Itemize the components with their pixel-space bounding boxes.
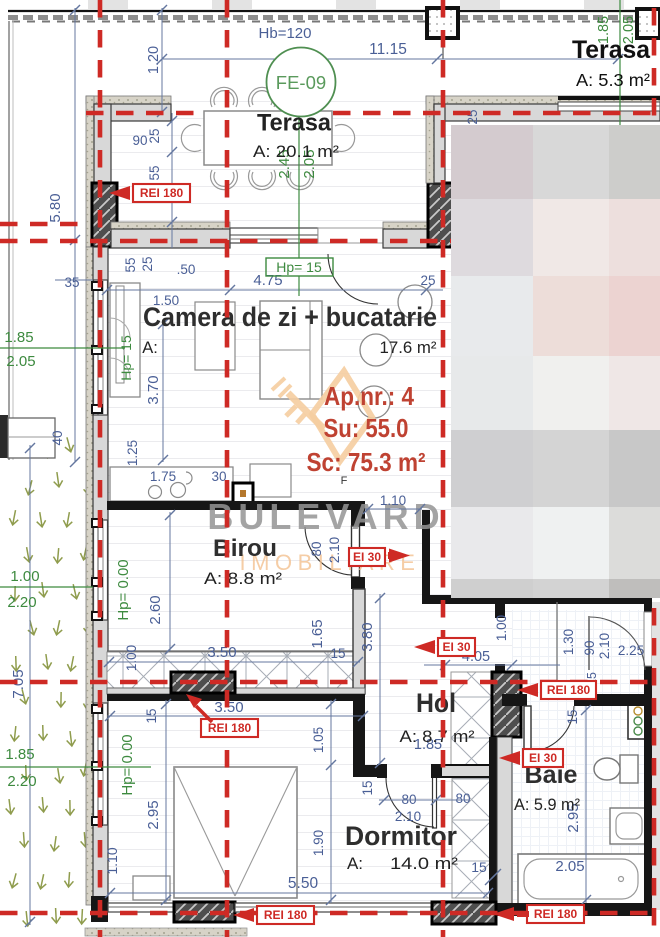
axis horizontal 1 east (333, 111, 660, 116)
svg-text:REI 180: REI 180 (208, 721, 252, 735)
svg-text:30: 30 (211, 469, 226, 484)
dormitor south window west (108, 903, 174, 912)
hatched block balcony B1 (171, 672, 235, 693)
svg-text:2.05: 2.05 (6, 353, 35, 370)
west wall speckle band (86, 247, 93, 905)
svg-text:Dormitor: Dormitor (345, 821, 457, 851)
sofa (260, 301, 322, 399)
svg-text:REI 180: REI 180 (547, 683, 591, 697)
terasa sliding window (230, 228, 318, 243)
door birou leaf (352, 526, 360, 577)
svg-text:Hp= 0.00: Hp= 0.00 (115, 559, 132, 620)
terasa bottom wall west segment (111, 222, 230, 229)
svg-text:EI 30: EI 30 (442, 640, 470, 654)
dim 3.70 (162, 322, 164, 462)
terasa left wall speckle band (86, 96, 171, 104)
svg-text:1.65: 1.65 (309, 619, 326, 648)
door jamb dormitor west (377, 764, 387, 778)
column A1 terasa left (92, 183, 117, 247)
green hp15 box (266, 258, 333, 276)
dim 1.10 passage (365, 508, 422, 510)
balcony railing strip (107, 652, 360, 688)
north-east building wall speckle (426, 96, 660, 104)
dim 1.20 vertical (161, 8, 163, 113)
svg-text:A: 5.3 m²: A: 5.3 m² (576, 70, 650, 90)
kitchen counter with sink (110, 467, 233, 501)
door baie swing (527, 706, 574, 752)
svg-text:15: 15 (330, 646, 345, 661)
green level line 3 (0, 766, 151, 768)
label rei180 terasa (133, 184, 190, 202)
dim line living top (107, 289, 443, 291)
column top axis C (427, 8, 458, 38)
svg-text:REI 180: REI 180 (140, 186, 184, 200)
wall birou-hol (353, 589, 365, 694)
dim 4.05 hol (424, 664, 560, 666)
label ei30 baie (523, 749, 563, 767)
dim 5.80 line (74, 8, 76, 462)
door jamb birou north (351, 510, 365, 526)
svg-text:25: 25 (140, 256, 155, 271)
door terasa east swing (590, 617, 645, 670)
door jamb dormitor east (431, 764, 441, 778)
svg-text:Hp= 0.00: Hp= 0.00 (119, 734, 136, 795)
wall baie north west segment (502, 694, 527, 706)
terasa bottom wall east segment (383, 222, 428, 229)
svg-text:A: 20.1 m²: A: 20.1 m² (253, 142, 339, 161)
label rei180 hol (541, 681, 596, 699)
dim terasa vertical line (171, 113, 173, 248)
svg-text:15: 15 (471, 859, 487, 875)
svg-text:A:: A: (142, 339, 158, 357)
dim 2.95 baie (585, 706, 587, 903)
door dormitor swing (386, 778, 434, 827)
dim line east dormitor (330, 700, 332, 903)
svg-text:Hp= 15: Hp= 15 (118, 335, 134, 381)
svg-text:5.50: 5.50 (288, 875, 319, 892)
svg-text:80: 80 (455, 791, 470, 806)
svg-text:1.30: 1.30 (561, 629, 576, 655)
svg-text:11.15: 11.15 (369, 41, 407, 58)
terasa left wall (94, 104, 171, 121)
svg-text:55: 55 (147, 165, 162, 180)
column top right corner (637, 9, 660, 38)
armchair 2 (360, 334, 392, 366)
dim 5.50 (107, 892, 490, 894)
west utility box (0, 415, 8, 458)
window dormitor mullions (92, 705, 102, 713)
svg-text:80: 80 (309, 541, 324, 556)
axis vertical 4 (652, 8, 657, 937)
svg-text:Hp= 15: Hp= 15 (276, 259, 322, 275)
svg-text:2.20: 2.20 (7, 773, 36, 790)
svg-text:Su: 55.0: Su: 55.0 (324, 413, 409, 443)
axis horizontal 1 west (86, 111, 203, 116)
west boundary line (8, 21, 10, 460)
svg-text:REI 180: REI 180 (534, 907, 578, 921)
axis horizontal 2 (0, 222, 86, 227)
svg-text:Hol: Hol (416, 688, 456, 718)
south-west corner block (91, 896, 108, 922)
mosaic censored block (451, 125, 660, 598)
svg-text:35: 35 (64, 275, 79, 290)
towel radiator (628, 703, 649, 739)
svg-text:BULEVARD: BULEVARD (207, 496, 444, 537)
wall baie east (644, 598, 652, 910)
svg-text:A: 5.9 m²: A: 5.9 m² (514, 796, 580, 814)
washbasin (610, 808, 647, 844)
wall hol-dormitor (365, 765, 379, 777)
wall hol east above column (495, 602, 505, 618)
wall living-birou (107, 501, 365, 510)
north-east building wall (434, 104, 660, 121)
dormitor south window east (235, 903, 432, 912)
flue box (233, 483, 253, 504)
balcony slab lower band (107, 688, 360, 694)
label rei180 south west (257, 906, 314, 924)
armchair 3 (358, 386, 390, 418)
wall passage east (422, 510, 430, 602)
svg-text:40: 40 (50, 430, 65, 445)
balcony slab edge (107, 650, 360, 652)
green level line 2 (0, 586, 93, 588)
svg-text:90: 90 (132, 133, 147, 148)
svg-text:2.95: 2.95 (145, 800, 162, 829)
svg-text:15: 15 (360, 780, 375, 795)
svg-text:55: 55 (123, 257, 138, 272)
svg-text:1.85: 1.85 (4, 329, 33, 346)
svg-text:1.25: 1.25 (125, 440, 140, 466)
dim 3.50 birou (107, 661, 360, 663)
axis horizontal 4 (0, 680, 660, 685)
svg-text:Hb=120: Hb=120 (259, 25, 312, 42)
terasa chairs (181, 87, 354, 189)
bed (174, 767, 297, 898)
logo key (272, 371, 372, 461)
kitchen island (250, 464, 291, 497)
dim 2.95 dormitor (165, 700, 167, 903)
armchair 1 (398, 285, 432, 319)
svg-text:14.0 m²: 14.0 m² (390, 854, 458, 873)
wall hol-dormitor east segment (441, 765, 502, 777)
column A2 terasa right (428, 183, 455, 247)
door terasa east opening (644, 612, 652, 666)
svg-text:.50: .50 (177, 262, 196, 277)
svg-text:Birou: Birou (213, 535, 277, 562)
svg-text:25: 25 (420, 273, 435, 288)
svg-text:3.80: 3.80 (359, 622, 376, 651)
axis extension column (442, 38, 444, 59)
svg-text:1.90: 1.90 (311, 830, 326, 856)
marker FE-09 circle (267, 48, 336, 117)
axis vertical 2 (225, 0, 230, 937)
svg-text:1.10: 1.10 (380, 493, 406, 508)
corridor partition line (556, 602, 558, 694)
label ei30 birou (349, 548, 385, 566)
dim door line dormitor (379, 799, 470, 801)
east margin strip (652, 602, 660, 910)
svg-text:2.05: 2.05 (555, 858, 584, 875)
svg-text:2.10: 2.10 (327, 537, 342, 563)
svg-text:3.70: 3.70 (145, 375, 162, 404)
toilet (620, 755, 638, 783)
svg-text:1.00: 1.00 (124, 645, 139, 671)
svg-text:17.6 m²: 17.6 m² (380, 339, 438, 357)
wall dormitor north (107, 688, 365, 694)
svg-text:2.20: 2.20 (7, 594, 36, 611)
wall under mosaic (422, 595, 652, 604)
dim line top 11.15 (162, 58, 618, 60)
terasa dining table (204, 111, 332, 165)
svg-text:2.60: 2.60 (147, 595, 164, 624)
door baie leaf (524, 706, 531, 751)
window mullions living (92, 282, 102, 290)
terasa living door swing (328, 254, 378, 304)
green level line 1 (0, 347, 125, 349)
hol tiled floor (451, 672, 491, 765)
window birou mullions (92, 519, 102, 527)
axis vertical 3 (441, 0, 446, 937)
svg-text:1.05: 1.05 (311, 727, 326, 753)
terasa door opening sill (318, 228, 383, 243)
svg-text:1.10: 1.10 (104, 847, 120, 874)
door dormitor leaf (433, 777, 437, 828)
window birou (94, 520, 108, 620)
wall hol west jog (353, 700, 365, 777)
wall baie south (496, 903, 652, 916)
svg-text:A: 8.7 m²: A: 8.7 m² (400, 727, 475, 746)
svg-text:2.10: 2.10 (597, 633, 612, 659)
svg-text:1.75: 1.75 (150, 469, 176, 484)
svg-text:Camera de zi + bucatarie: Camera de zi + bucatarie (143, 302, 437, 332)
wall baie north east segment (574, 694, 652, 706)
axis vertical 1 (98, 0, 103, 937)
label rei180 balcony (201, 719, 258, 737)
dim 7.05 (29, 445, 31, 925)
north-east window (558, 102, 660, 111)
wall baie west (489, 737, 497, 905)
door jamb birou south (351, 577, 365, 589)
corridor tiled floor (452, 778, 490, 898)
svg-text:1.00: 1.00 (494, 615, 509, 641)
svg-text:A:: A: (347, 854, 363, 873)
west exterior wall (93, 247, 108, 905)
green section line east (619, 0, 621, 215)
label rei180 south east (527, 905, 584, 923)
svg-text:1.00: 1.00 (10, 568, 39, 585)
window living room (94, 280, 108, 415)
north boundary fence (8, 10, 660, 12)
svg-text:A: 8.8 m²: A: 8.8 m² (204, 569, 282, 588)
svg-text:1.85: 1.85 (5, 746, 34, 763)
neighbour building marks (88, 0, 128, 9)
svg-text:EI 30: EI 30 (529, 751, 557, 765)
dim 3.50 dormitor (107, 715, 365, 717)
dim 3.80 hol (379, 594, 381, 765)
axis horizontal 3 (0, 239, 458, 244)
dormitor south wall block 1 (174, 902, 235, 922)
svg-text:2.25: 2.25 (618, 643, 644, 658)
svg-text:FE-09: FE-09 (276, 72, 326, 93)
label ei30 hol (438, 638, 475, 656)
door birou swing (305, 527, 352, 575)
floor texture lines (93, 96, 652, 916)
svg-text:25: 25 (147, 128, 162, 143)
svg-text:90: 90 (582, 640, 597, 655)
green planting strip (5, 436, 94, 926)
bathroom tile grid (512, 610, 644, 903)
svg-text:15: 15 (565, 709, 580, 724)
dormitor south wall block 2 (432, 902, 496, 924)
living table (195, 302, 235, 370)
svg-text:EI 30: EI 30 (353, 550, 381, 564)
window dormitor (94, 703, 108, 825)
svg-text:5.80: 5.80 (47, 193, 64, 222)
kitchen tall cabinets (110, 283, 140, 397)
bathtub (518, 854, 645, 904)
north-east wall top edge (558, 96, 660, 100)
svg-text:Ap.nr.: 4: Ap.nr.: 4 (324, 381, 414, 411)
svg-text:3.50: 3.50 (207, 644, 236, 661)
south sidewalk band (85, 928, 247, 936)
green section line (298, 113, 300, 258)
column B1 hol (492, 672, 521, 737)
nightstand (133, 876, 170, 900)
axis horizontal 5 (0, 911, 660, 916)
svg-text:REI 180: REI 180 (264, 908, 308, 922)
dim 2.60 birou (169, 512, 171, 651)
svg-text:Terasa: Terasa (572, 36, 651, 64)
svg-text:1.20: 1.20 (146, 46, 162, 74)
svg-text:Terasa: Terasa (257, 110, 332, 137)
svg-text:Sc: 75.3 m²: Sc: 75.3 m² (307, 447, 426, 477)
